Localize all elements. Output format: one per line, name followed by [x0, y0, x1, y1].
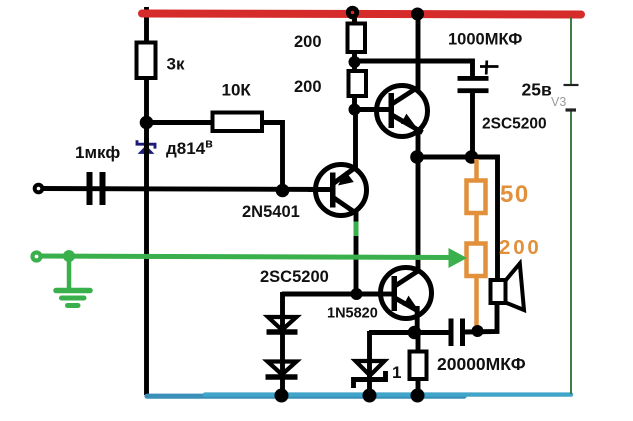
junction: between 200 resistors: [349, 56, 361, 68]
svg-text:20000МКФ: 20000МКФ: [437, 354, 526, 374]
resistor 200 (orange): [467, 244, 486, 333]
wire: 355 chain vertical top: [352, 14, 357, 112]
svg-text:200: 200: [294, 33, 322, 51]
resistor (emitter, unlabeled value): [410, 352, 427, 380]
junction: 3к/10К node: [140, 116, 154, 130]
resistor 200 (lower): [349, 71, 367, 96]
wire: input line to 2N5401 base (y=189): [43, 189, 332, 190]
resistor 200 (upper): [348, 24, 366, 53]
wire: 1000uF cap bottom to node (x=472): [470, 90, 475, 159]
junction: emitter resistor to rail: [411, 389, 425, 403]
junction: cap/orange node: [465, 150, 479, 164]
junction: schottky to rail: [363, 389, 377, 403]
svg-text:50: 50: [500, 181, 530, 208]
svg-text:1000МКФ: 1000МКФ: [448, 31, 522, 49]
svg-text:2N5401: 2N5401: [242, 203, 300, 221]
wire: 10K left lead from node: [146, 120, 215, 125]
junction: Q2 base node: [349, 104, 361, 116]
resistor 3к: [137, 43, 156, 79]
wire: Q3 emitter node to 20000uF (y=332.5): [369, 330, 450, 335]
negative rail (blue): [147, 395, 571, 397]
ground (green): [56, 258, 90, 306]
wire: 2N5401 emitter vertical up to 200-chain: [353, 107, 358, 168]
speaker: [491, 264, 525, 311]
capacitor 1000МКФ: [458, 61, 499, 94]
green mark on collector wire: [354, 222, 359, 237]
junction: Q3 base node: [351, 288, 363, 300]
svg-text:10К: 10К: [222, 81, 252, 100]
wire: diode chain drop (x=282): [280, 292, 285, 396]
junction: Q2 emitter node: [410, 150, 424, 164]
svg-text:200: 200: [499, 236, 542, 259]
capacitor 1мкф: [87, 172, 106, 205]
transistor Q2 2SC5200 (upper): [374, 86, 428, 137]
svg-text:V3: V3: [551, 95, 566, 109]
svg-text:200: 200: [294, 78, 322, 96]
transistor Q3 2SC5200 (output): [378, 268, 432, 334]
wire: collector/emitter vertical x=418 from rail to Q3: [416, 14, 421, 272]
transistor 2N5401: [308, 165, 367, 216]
schottky diode 1N5820: [354, 359, 386, 388]
wire: Q2 emitter node to speaker branch (y=157): [417, 157, 498, 281]
junction: 2N5401 base node: [276, 184, 290, 198]
resistor 50 (orange) with leads: [467, 159, 486, 245]
wire: schottky drop (x=369.5): [367, 331, 372, 396]
positive rail (red): [142, 14, 581, 15]
wire: Q3 base rail (y=294): [282, 292, 393, 297]
wire: 10K right lead down to base node: [260, 123, 283, 193]
green junction dot: [63, 250, 75, 262]
svg-text:1N5820: 1N5820: [327, 306, 378, 322]
junction: diode pair to rail: [275, 389, 289, 403]
wire: 2N5401 collector vertical down to Q3 base node: [354, 212, 359, 296]
ring junction on rail (x=352): [348, 8, 356, 16]
diode D2 (lower of pair): [266, 360, 298, 377]
svg-text:3к: 3к: [167, 55, 185, 74]
input terminal: [35, 185, 43, 193]
svg-text:2SC5200: 2SC5200: [482, 116, 547, 133]
junction: Q3 emitter node: [408, 326, 422, 340]
diode D1 (upper of pair): [267, 315, 298, 332]
voltmeter V3 branch (thin dark green): [564, 17, 579, 394]
green signal line: [36, 256, 452, 258]
resistor 10К: [213, 113, 263, 132]
junction: orange/cap/speaker node: [472, 325, 484, 337]
svg-text:2SC5200: 2SC5200: [260, 268, 329, 286]
svg-text:25в: 25в: [522, 80, 552, 100]
wire: 20000uF right lead to speaker return: [465, 297, 498, 332]
junction ring on positive rail: [348, 8, 356, 16]
wire: left branch vertical (x=146): [144, 7, 149, 395]
wire: Q3 emitter down + resistor to rail (x=418): [416, 332, 421, 396]
green arrow head: [449, 248, 468, 268]
wire: Q2 base lead (y=109): [354, 107, 391, 112]
junction dot on rail (x=418): [411, 8, 424, 21]
wire: node between 200 resistors to 1000uF cap (y=61): [355, 61, 473, 77]
svg-text:1: 1: [392, 363, 401, 382]
svg-text:1мкф: 1мкф: [75, 143, 120, 162]
capacitor 20000МКФ: [449, 319, 466, 347]
green input terminal: [33, 253, 41, 261]
zener д814в: [137, 138, 155, 160]
